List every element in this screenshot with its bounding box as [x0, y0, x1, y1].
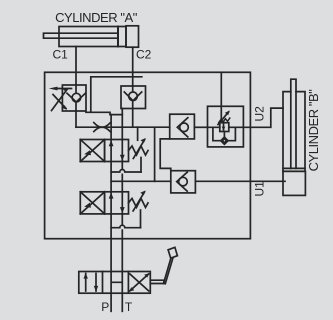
PRV check loop: [213, 127, 236, 140]
CV2 through line: [132, 86, 134, 109]
CV2 seat: [124, 92, 141, 101]
cylinder A body: [59, 27, 126, 47]
wire T drop: [121, 293, 123, 311]
svg-text:P: P: [101, 300, 109, 314]
CB1 through line: [75, 85, 77, 111]
svg-text:CYLINDER "B": CYLINDER "B": [306, 89, 321, 172]
cylinder A head block: [126, 26, 139, 47]
CB1 pilot arrow: [56, 88, 72, 90]
wire C1 tail: [75, 111, 77, 127]
pressure reducing valve PRV outer box: [208, 106, 244, 147]
wire U1 out: [195, 180, 285, 182]
V2 spring drain: [140, 210, 142, 228]
check valve CV4 square (U1): [171, 171, 196, 193]
wire C2 drop: [132, 47, 134, 86]
wire pilot stub to valve V1 spring: [137, 127, 139, 140]
wire P drop: [110, 293, 112, 311]
DCV left box down arrow: [95, 274, 97, 292]
orifice O1: [94, 123, 110, 132]
PRV spool arrow: [223, 124, 225, 130]
valve V2 closed box: [80, 192, 104, 214]
cylinder A rod: [44, 33, 119, 38]
PRV check diamond: [221, 137, 228, 144]
V1 adjust arrow: [133, 140, 144, 159]
counterbalance check valve CB1 square: [62, 85, 86, 111]
DCV dividers: [103, 272, 129, 294]
svg-text:U1: U1: [252, 181, 266, 197]
cylinder B body: [283, 92, 305, 172]
CV3 ball: [180, 123, 189, 132]
CV4 ball: [179, 177, 188, 186]
cylinder B piston: [283, 168, 305, 171]
CB1 adjust arrow 2: [53, 95, 66, 109]
DCV left box up arrow: [85, 274, 87, 292]
V2 up arrow: [110, 192, 112, 214]
wire center P riser: [110, 115, 112, 272]
lever bracket: [150, 280, 164, 283]
V1 spring drain: [140, 158, 142, 173]
PRV spool box: [220, 123, 229, 132]
V1 X: [80, 140, 104, 162]
wire U2 out: [250, 108, 283, 127]
V1 up arrow: [110, 140, 112, 162]
svg-text:C1: C1: [53, 48, 69, 62]
wire U2/U1 link: [154, 127, 156, 181]
wire hop H2: [111, 225, 140, 227]
CB1 ball: [72, 93, 81, 102]
CB1 adjust arrow 1: [52, 89, 68, 111]
cylinder B base block: [283, 171, 305, 195]
valve V1 closed box: [80, 140, 104, 162]
V1 spring: [129, 146, 149, 155]
lever grip: [168, 247, 177, 258]
directional valve DCV body: [79, 272, 151, 294]
cylinder A piston: [117, 27, 119, 47]
wire pilot W1: [86, 77, 142, 115]
V2 X: [80, 192, 104, 214]
check valve CV3 square (U2): [170, 114, 195, 139]
CV2 ball: [129, 92, 138, 101]
cylinder B rod: [291, 79, 296, 168]
CV3 seat: [177, 118, 188, 137]
svg-text:U2: U2: [252, 106, 266, 122]
V2 adjust arrow: [133, 192, 144, 211]
valve V2 flow box: [105, 192, 129, 214]
V2 down arrow: [121, 192, 123, 214]
wire staircase: [160, 139, 171, 171]
wire C2 tail: [132, 109, 134, 128]
CV4 seat: [177, 172, 188, 191]
V1 down arrow: [121, 140, 123, 162]
wire main gallery: [76, 126, 170, 128]
wire C1 drop: [75, 47, 77, 86]
PRV adjust arrow: [218, 112, 229, 125]
V2 spring: [129, 198, 149, 207]
CB1 seat: [67, 93, 85, 102]
svg-text:CYLINDER "A": CYLINDER "A": [55, 10, 138, 25]
DCV right box X: [130, 274, 149, 291]
PRV spring: [219, 118, 230, 122]
wire U1 gallery: [111, 180, 171, 182]
PRV feed: [220, 72, 222, 121]
PRV through line: [208, 126, 251, 128]
svg-text:T: T: [125, 300, 133, 314]
svg-text:C2: C2: [136, 48, 152, 62]
wire center T riser: [121, 115, 123, 272]
check valve CV2 square: [121, 86, 146, 109]
valve V1 flow box: [105, 140, 129, 162]
wire CV3 to PRV: [194, 126, 207, 128]
wire hop H1: [111, 170, 141, 173]
manifold box: [45, 72, 251, 238]
lever shaft: [164, 258, 173, 284]
DCV center lines: [111, 272, 122, 294]
